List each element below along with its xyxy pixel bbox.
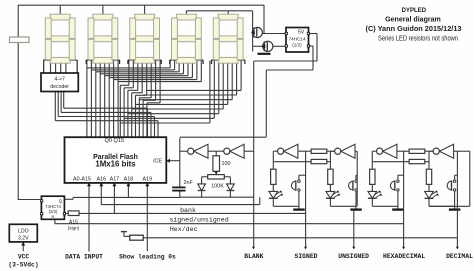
- svg-text:(sign): (sign): [68, 226, 80, 231]
- svg-text:A18: A18: [124, 177, 134, 183]
- svg-text:74HC14: 74HC14: [289, 37, 306, 42]
- svg-text:(3-5Vdc): (3-5Vdc): [8, 261, 38, 268]
- svg-text:SIGNED: SIGNED: [294, 253, 317, 260]
- svg-text:(C) Yann Guidon 2015/12/13: (C) Yann Guidon 2015/12/13: [366, 26, 462, 33]
- svg-text:HEXADECIMAL: HEXADECIMAL: [383, 253, 425, 260]
- svg-text:A15: A15: [69, 219, 78, 225]
- svg-text:A19: A19: [143, 177, 153, 183]
- svg-text:5V: 5V: [298, 30, 305, 36]
- svg-text:2nF: 2nF: [184, 180, 194, 186]
- svg-text:VCC: VCC: [18, 253, 30, 260]
- svg-text:R: R: [52, 214, 55, 219]
- svg-text:(1/2): (1/2): [292, 43, 302, 48]
- svg-text:LDO: LDO: [18, 228, 29, 234]
- svg-text:Hex/dec: Hex/dec: [170, 226, 198, 233]
- svg-text:General diagram: General diagram: [385, 14, 441, 23]
- svg-text:A16: A16: [97, 177, 107, 183]
- svg-text:Show leading 0s: Show leading 0s: [119, 253, 176, 260]
- svg-text:BLANK: BLANK: [244, 253, 263, 260]
- svg-text:A0-A15: A0-A15: [73, 177, 91, 183]
- svg-text:Q0 Q15: Q0 Q15: [105, 138, 125, 144]
- svg-text:UNSIGNED: UNSIGNED: [338, 253, 369, 260]
- svg-text:Series LED resistors not shown: Series LED resistors not shown: [378, 36, 458, 43]
- svg-text:100K: 100K: [211, 183, 224, 189]
- svg-text:decoder: decoder: [50, 84, 69, 90]
- svg-text:1Mx16 bits: 1Mx16 bits: [95, 159, 136, 168]
- svg-text:100: 100: [222, 161, 231, 167]
- svg-text:DYPLED: DYPLED: [402, 7, 427, 14]
- svg-text:Q: Q: [59, 198, 63, 203]
- svg-text:A17: A17: [110, 177, 120, 183]
- svg-text:4->7: 4->7: [54, 77, 65, 83]
- svg-text:DATA INPUT: DATA INPUT: [65, 253, 103, 260]
- svg-text:/CE: /CE: [153, 159, 162, 165]
- svg-text:signed/unsigned: signed/unsigned: [169, 217, 228, 224]
- svg-text:DECIMAL: DECIMAL: [446, 253, 473, 260]
- svg-text:bank: bank: [180, 207, 196, 214]
- svg-text:3.2V: 3.2V: [18, 235, 29, 241]
